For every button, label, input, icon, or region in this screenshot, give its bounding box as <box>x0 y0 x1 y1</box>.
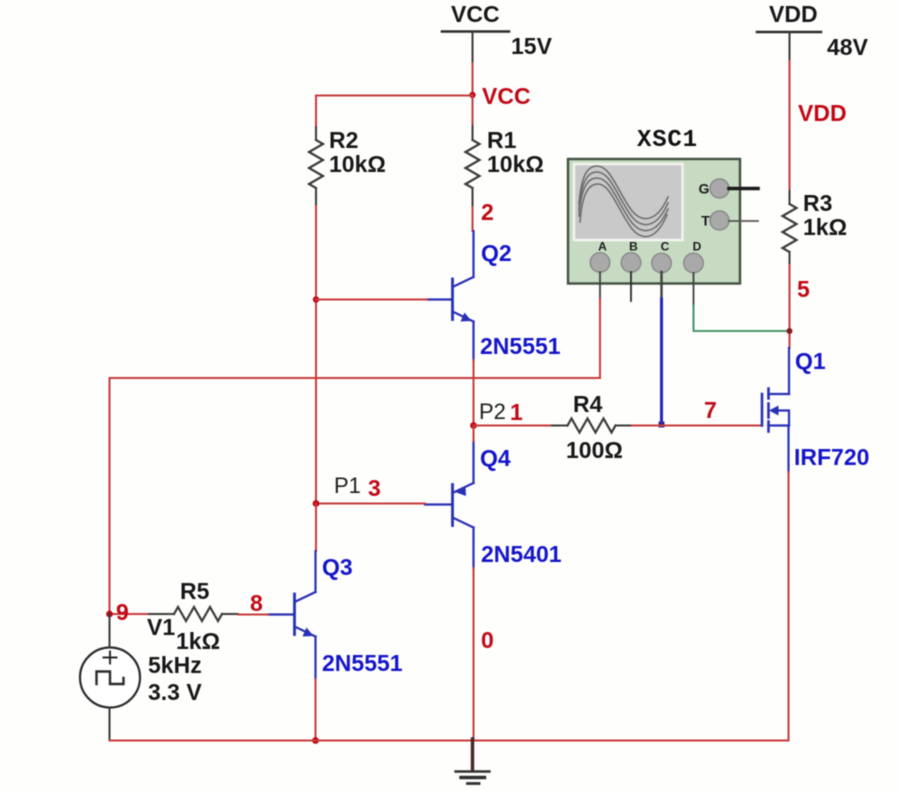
wire Q4 base red part <box>316 503 425 505</box>
node 9 junction <box>106 611 113 618</box>
svg-text:P1: P1 <box>334 473 361 498</box>
svg-text:Q2: Q2 <box>481 240 512 266</box>
svg-text:Q1: Q1 <box>795 348 826 374</box>
scope terminal B <box>621 253 641 273</box>
svg-text:G: G <box>699 181 710 197</box>
svg-text:3: 3 <box>368 475 381 501</box>
resistor R5 <box>149 613 174 615</box>
svg-text:100Ω: 100Ω <box>566 437 623 463</box>
svg-text:Q3: Q3 <box>322 554 353 580</box>
svg-text:Q4: Q4 <box>480 445 511 471</box>
scope terminal D <box>684 253 704 273</box>
svg-text:T: T <box>701 213 710 229</box>
transistor Q3 2N5551 <box>268 551 316 679</box>
svg-text:A: A <box>598 240 607 254</box>
svg-text:1kΩ: 1kΩ <box>176 628 220 654</box>
node Q2 base tap <box>313 296 319 302</box>
svg-text:R1: R1 <box>487 127 517 153</box>
svg-text:D: D <box>693 240 702 254</box>
resistor R1 <box>466 140 480 188</box>
wire scope D lead (green) <box>693 273 695 305</box>
svg-text:7: 7 <box>704 397 717 423</box>
oscilloscope XSC1 <box>568 127 740 284</box>
svg-text:1kΩ: 1kΩ <box>803 214 847 240</box>
power symbol VCC <box>442 1 509 65</box>
source V1 <box>80 648 140 708</box>
transistor Q1 IRF720 <box>762 348 789 472</box>
svg-text:0: 0 <box>481 627 494 653</box>
svg-text:2: 2 <box>481 199 494 225</box>
svg-text:2N5401: 2N5401 <box>481 541 562 567</box>
scope terminal G <box>710 179 729 198</box>
wire left vertical <box>109 378 111 614</box>
wire Q2 emitter to P2 <box>473 360 475 425</box>
svg-text:5kHz: 5kHz <box>148 652 202 678</box>
svg-text:B: B <box>629 240 638 254</box>
svg-text:C: C <box>661 240 670 254</box>
wire R2 top lead <box>315 96 317 141</box>
node green junction <box>787 328 793 334</box>
resistor R2 <box>309 140 323 188</box>
svg-text:8: 8 <box>250 590 263 616</box>
wire Q4 collector down (node 0) <box>473 568 475 741</box>
wire scope C lead <box>660 272 662 299</box>
wire P2 down to Q4 emitter <box>473 426 475 442</box>
scope terminal C <box>652 253 672 273</box>
node Q3 emitter rail junction <box>312 737 319 744</box>
wire G stub <box>729 187 758 191</box>
wire VDD stem to R3 <box>789 61 791 192</box>
svg-text:XSC1: XSC1 <box>637 127 698 154</box>
node VCC junction <box>469 92 475 98</box>
svg-text:5: 5 <box>797 276 810 302</box>
scope terminal A <box>590 253 610 273</box>
svg-text:10kΩ: 10kΩ <box>329 151 386 177</box>
svg-text:R2: R2 <box>329 127 358 153</box>
svg-text:R3: R3 <box>803 190 832 216</box>
wire VCC horizontal to R2 column <box>316 95 473 97</box>
wire R4 to Q1 gate (node 7) <box>632 425 761 427</box>
wire P2 to R4 <box>474 425 553 427</box>
svg-text:R4: R4 <box>573 391 603 417</box>
svg-text:1: 1 <box>510 399 523 425</box>
wire T stub <box>729 220 758 222</box>
wire R1 top lead <box>472 95 474 127</box>
svg-text:P2: P2 <box>479 399 506 424</box>
wire node9 to R5 <box>110 613 150 615</box>
wire R2 bottom to Q2 base junction and down to P1 <box>315 206 317 503</box>
node C junction <box>659 422 665 428</box>
power symbol VDD <box>757 1 821 63</box>
svg-text:48V: 48V <box>827 34 869 60</box>
svg-text:9: 9 <box>116 599 129 625</box>
wire VCC stem to node <box>472 63 474 95</box>
svg-text:V1: V1 <box>147 614 175 640</box>
wire long horizontal node9 <box>110 377 601 379</box>
svg-text:IRF720: IRF720 <box>794 444 869 470</box>
wire R5 to Q3 base <box>238 614 268 616</box>
scope terminal T <box>710 211 729 230</box>
ground <box>456 739 490 784</box>
wire R3 to node 5 and Q1 drain <box>789 265 791 348</box>
wire P1 down to Q3 collector <box>315 504 317 552</box>
node P2 junction <box>470 422 477 429</box>
svg-text:10kΩ: 10kΩ <box>487 151 544 177</box>
wire bottom rail <box>110 740 789 742</box>
svg-text:2N5551: 2N5551 <box>480 333 561 359</box>
scope waveform <box>579 166 668 237</box>
node P1 junction <box>313 500 320 507</box>
resistor R3 <box>789 191 791 204</box>
transistor Q4 2N5401 <box>425 441 474 568</box>
svg-text:VDD: VDD <box>769 1 818 27</box>
svg-text:VDD: VDD <box>798 100 847 126</box>
wire Q3 emitter down to rail <box>315 679 317 741</box>
wire scope B stub <box>630 272 632 301</box>
svg-text:R5: R5 <box>180 578 210 604</box>
resistor R4 <box>552 425 568 427</box>
svg-text:15V: 15V <box>511 33 553 59</box>
svg-text:VCC: VCC <box>482 83 531 109</box>
wire V1 top lead <box>109 614 111 648</box>
svg-text:2N5551: 2N5551 <box>322 650 403 676</box>
wire node 2 (R1 to Q2 collector) <box>472 207 474 231</box>
transistor Q2 2N5551 <box>427 231 474 360</box>
svg-text:3.3 V: 3.3 V <box>148 679 202 705</box>
wire scope A lead <box>599 272 601 299</box>
wire Q1 source down to rail <box>788 472 790 741</box>
wire Q2 base (red part) <box>316 299 427 301</box>
wire V1 bottom lead <box>109 708 111 741</box>
svg-text:VCC: VCC <box>451 1 500 27</box>
